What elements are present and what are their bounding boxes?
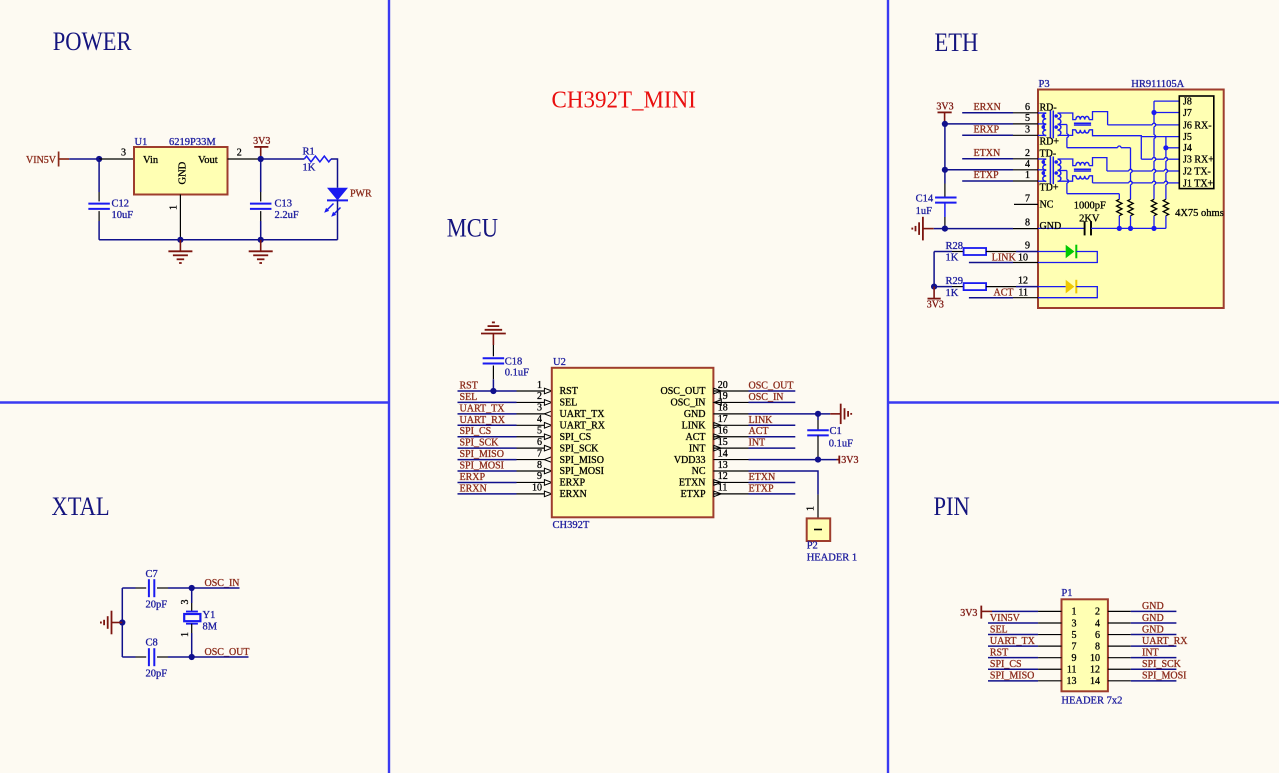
svg-text:1K: 1K <box>946 253 959 264</box>
pin arrow 2 <box>544 400 551 406</box>
svg-text:7: 7 <box>1072 641 1077 652</box>
svg-text:12: 12 <box>718 471 728 482</box>
wire UART_RX to U2 pin 4 <box>458 424 517 426</box>
node junctions GND row <box>1117 226 1122 231</box>
svg-text:18: 18 <box>718 403 728 414</box>
svg-text:OSC_IN: OSC_IN <box>670 398 705 409</box>
wire XTAL left rail <box>121 588 123 657</box>
svg-text:8: 8 <box>1095 641 1100 652</box>
transformer secondary winding <box>1058 113 1061 135</box>
transformer primary winding <box>1043 113 1046 135</box>
svg-text:VIN5V: VIN5V <box>26 155 57 166</box>
svg-text:10: 10 <box>1018 252 1028 263</box>
wire ERXP to P3 pin 3 <box>962 134 1013 136</box>
svg-text:UART_RX: UART_RX <box>560 420 606 431</box>
svg-text:ETXN: ETXN <box>679 478 706 489</box>
ground symbol below C13 <box>260 240 262 251</box>
svg-text:ERXP: ERXP <box>974 125 1000 136</box>
node junction GND bus <box>177 237 183 243</box>
svg-text:J7: J7 <box>1183 108 1192 119</box>
node junction C18/RST <box>490 388 496 394</box>
wire OSC_IN pin19 <box>713 401 748 403</box>
wire OSC_IN <box>192 587 240 589</box>
svg-text:SPI_SCK: SPI_SCK <box>460 438 500 449</box>
wire SPI_SCK to U2 pin 6 <box>458 447 517 449</box>
svg-text:ETXN: ETXN <box>749 472 776 483</box>
wire VDD33 pin14 <box>713 459 748 461</box>
wire VIN5V to P1 pin 3 <box>988 622 1038 624</box>
wire SPI_CS to U2 pin 5 <box>458 436 517 438</box>
wire UART_TX to U2 pin 3 <box>458 413 517 415</box>
svg-text:ETXP: ETXP <box>974 170 999 181</box>
svg-text:3V3: 3V3 <box>936 101 953 112</box>
wire INT pin15 <box>713 447 748 449</box>
node junction R29 rail <box>931 284 937 290</box>
wire J5 row <box>1142 136 1179 138</box>
svg-text:4: 4 <box>1095 618 1100 629</box>
svg-text:6219P33M: 6219P33M <box>169 137 216 148</box>
svg-text:C1: C1 <box>830 426 842 437</box>
svg-text:J4: J4 <box>1183 143 1192 154</box>
IC U2 body <box>552 368 714 518</box>
connector P3 body <box>1038 90 1224 309</box>
wire rail to P3 pin5 <box>945 123 1013 125</box>
wire LED cathode to bottom bus <box>337 200 339 239</box>
svg-text:SPI_SCK: SPI_SCK <box>560 443 600 454</box>
svg-text:C13: C13 <box>275 199 293 210</box>
wire RX center tap to resistor <box>1066 125 1068 135</box>
wire pin2 stub <box>228 158 261 160</box>
svg-text:4: 4 <box>1025 159 1030 170</box>
svg-text:3: 3 <box>537 403 542 414</box>
wire SPI_MOSI from P1 pin 14 <box>1108 680 1131 682</box>
crystal Y1 <box>186 611 198 613</box>
wire ERXP to U2 pin 9 <box>458 481 517 483</box>
node junction rail/ground <box>119 619 125 625</box>
wire primary leads <box>1038 112 1046 114</box>
svg-text:8M: 8M <box>203 622 218 633</box>
svg-text:0.1uF: 0.1uF <box>505 368 529 379</box>
svg-text:GND: GND <box>1142 624 1164 635</box>
pin arrow 12 <box>714 480 721 486</box>
node junction rail pin4 <box>942 167 948 173</box>
svg-text:3: 3 <box>1072 618 1077 629</box>
wire C8 to OSC_OUT node <box>157 656 168 658</box>
svg-text:ETXP: ETXP <box>749 483 774 494</box>
svg-text:7: 7 <box>537 448 542 459</box>
LED ACT yellow <box>1038 286 1066 288</box>
wire C7 to OSC_IN node <box>157 587 168 589</box>
wire UART_TX to P1 pin 7 <box>988 645 1038 647</box>
svg-text:Vin: Vin <box>143 155 159 166</box>
wire U1 GND pin to bus <box>179 195 181 240</box>
svg-text:3: 3 <box>1025 124 1030 135</box>
wire J8 row <box>1154 100 1179 102</box>
svg-text:10uF: 10uF <box>112 210 134 221</box>
svg-text:R29: R29 <box>946 276 964 287</box>
wire SPI_SCK from P1 pin 12 <box>1108 668 1131 670</box>
svg-text:INT: INT <box>749 438 766 449</box>
wire RST to P1 pin 9 <box>988 657 1038 659</box>
svg-text:5: 5 <box>1025 113 1030 124</box>
svg-text:9: 9 <box>1025 241 1030 252</box>
svg-text:C12: C12 <box>112 199 130 210</box>
wire secondary bottom to choke <box>1058 130 1076 136</box>
svg-text:14: 14 <box>1090 676 1100 687</box>
wire termination column C2 <box>1165 137 1167 158</box>
choke winding <box>1076 162 1089 165</box>
svg-text:8: 8 <box>537 460 542 471</box>
capacitor C7 <box>148 579 150 597</box>
pin arrow 19 <box>714 400 721 406</box>
pin arrow 9 <box>544 480 551 486</box>
svg-text:ETXN: ETXN <box>974 148 1001 159</box>
svg-text:ERXN: ERXN <box>460 483 487 494</box>
svg-text:UART_RX: UART_RX <box>1142 636 1188 647</box>
svg-text:ERXP: ERXP <box>560 478 586 489</box>
svg-text:SPI_MISO: SPI_MISO <box>560 455 604 466</box>
pin arrow 8 <box>544 468 551 474</box>
svg-text:20pF: 20pF <box>146 600 168 611</box>
svg-text:4: 4 <box>537 414 542 425</box>
svg-text:C18: C18 <box>505 357 523 368</box>
node junction OSC_IN <box>189 585 195 591</box>
svg-text:17: 17 <box>718 414 728 425</box>
transformer core <box>1049 111 1051 139</box>
svg-text:LINK: LINK <box>992 252 1017 263</box>
svg-text:2: 2 <box>1095 607 1100 618</box>
node junction 3V3/C13 <box>258 156 264 162</box>
svg-text:GND: GND <box>1040 221 1062 232</box>
svg-text:4X75 ohms: 4X75 ohms <box>1175 208 1224 219</box>
power symbol 3V3 top of ETH <box>938 111 952 113</box>
svg-text:OSC_IN: OSC_IN <box>749 392 784 403</box>
wire SEL to P1 pin 5 <box>988 634 1038 636</box>
wire rail to P3 pin4 <box>945 169 1013 171</box>
svg-text:MCU: MCU <box>447 214 499 243</box>
wire NC pin13 to P2 <box>713 470 748 472</box>
capacitor C14 <box>944 170 946 184</box>
wire RST to U2 pin 1 <box>458 390 517 392</box>
svg-text:3V3: 3V3 <box>253 136 270 147</box>
svg-text:1: 1 <box>537 380 542 391</box>
wire UART_RX from P1 pin 8 <box>1108 645 1131 647</box>
svg-text:LINK: LINK <box>682 420 707 431</box>
svg-text:1K: 1K <box>946 288 959 299</box>
node junction J4 column <box>1163 145 1168 150</box>
svg-text:3: 3 <box>121 148 126 159</box>
svg-text:VIN5V: VIN5V <box>990 613 1021 624</box>
node junction GND/C1 <box>815 411 821 417</box>
svg-text:12: 12 <box>1090 665 1100 676</box>
power symbol 3V3 below R29 rail <box>933 287 935 299</box>
wire LINK LED loop <box>1038 252 1097 263</box>
svg-text:1: 1 <box>806 506 817 511</box>
wire ACT pin16 <box>713 436 748 438</box>
power symbol 3V3 above C13 <box>254 146 268 148</box>
svg-text:C7: C7 <box>146 569 158 580</box>
wire ACT pin11 <box>969 297 1013 299</box>
svg-text:GND: GND <box>178 161 189 184</box>
wire pin3 stub <box>99 158 134 160</box>
wire OSC_OUT <box>192 656 249 658</box>
wire GND pin18 <box>713 413 748 415</box>
svg-text:SPI_SCK: SPI_SCK <box>1142 659 1182 670</box>
svg-text:ERXN: ERXN <box>974 102 1001 113</box>
svg-text:11: 11 <box>718 483 728 494</box>
svg-text:J5: J5 <box>1183 132 1192 143</box>
svg-text:3V3: 3V3 <box>927 300 944 311</box>
wire TX choke to J2 <box>1089 158 1107 171</box>
svg-text:ACT: ACT <box>686 432 706 443</box>
pin arrow 17 <box>714 422 721 428</box>
wire TX choke to J1 <box>1089 176 1092 183</box>
svg-text:ETH: ETH <box>935 28 979 57</box>
svg-text:SPI_MISO: SPI_MISO <box>990 671 1034 682</box>
svg-text:3V3: 3V3 <box>960 608 977 619</box>
wire VIN5V to node <box>69 158 99 160</box>
wire GND row to P3 pin8 <box>934 228 945 230</box>
svg-text:R1: R1 <box>303 147 315 158</box>
svg-text:11: 11 <box>1067 665 1077 676</box>
svg-text:ERXP: ERXP <box>460 472 486 483</box>
transformer core <box>1049 157 1051 185</box>
wire primary leads <box>1038 158 1046 160</box>
svg-text:1000pF: 1000pF <box>1074 201 1106 212</box>
wire OSC_OUT pin20 <box>713 390 748 392</box>
wire 3V3 to P1 pin1 <box>981 610 992 612</box>
svg-text:C8: C8 <box>146 638 158 649</box>
wire NC stub pin7 <box>1014 203 1038 205</box>
svg-text:5: 5 <box>537 426 542 437</box>
wire 3V3 node to R1 <box>261 158 305 160</box>
wire SPI_CS to P1 pin 11 <box>988 668 1038 670</box>
capacitor C8 <box>148 648 150 666</box>
svg-text:SPI_CS: SPI_CS <box>990 659 1022 670</box>
svg-text:2: 2 <box>237 148 242 159</box>
svg-text:6: 6 <box>1025 102 1030 113</box>
wire ETH left rail <box>944 124 946 170</box>
ground symbol right of U2 <box>830 413 840 415</box>
svg-text:UART_RX: UART_RX <box>460 415 506 426</box>
svg-text:HEADER 1: HEADER 1 <box>807 553 857 564</box>
wire bottom rail to C8 <box>122 656 135 658</box>
header P2 body <box>807 518 831 541</box>
wire GND from P1 pin 2 <box>1108 610 1131 612</box>
svg-text:J1 TX+: J1 TX+ <box>1183 178 1214 189</box>
svg-text:Vout: Vout <box>198 155 218 166</box>
ground symbol above C18 (inverted) <box>492 334 494 345</box>
svg-text:SEL: SEL <box>990 624 1008 635</box>
svg-text:NC: NC <box>692 466 706 477</box>
wire crystal branch bottom <box>191 624 193 633</box>
wire ETXN to P3 pin 2 <box>962 158 1013 160</box>
node junction VDD33/C1 <box>815 456 821 462</box>
svg-text:R28: R28 <box>946 241 964 252</box>
capacitor C18 <box>492 345 494 356</box>
wire ETXP pin11 <box>713 493 748 495</box>
node junction at C12 top <box>96 156 102 162</box>
svg-text:P2: P2 <box>807 541 818 552</box>
svg-text:10: 10 <box>532 483 542 494</box>
wire TX center tap to resistor <box>1058 170 1067 172</box>
pin arrow 3 <box>544 411 551 417</box>
resistor R29 <box>934 286 952 288</box>
svg-text:GND: GND <box>684 409 706 420</box>
wire ETXP to P3 pin 1 <box>962 180 1013 182</box>
LED PWR (blue) <box>327 188 348 201</box>
ground symbol below U1 <box>179 240 181 251</box>
svg-text:RST: RST <box>990 647 1008 658</box>
svg-text:1uF: 1uF <box>916 206 933 217</box>
svg-text:POWER: POWER <box>53 28 132 57</box>
pin arrow 20 <box>714 388 721 394</box>
svg-text:SEL: SEL <box>560 398 578 409</box>
svg-text:INT: INT <box>1142 647 1159 658</box>
svg-text:8: 8 <box>1025 217 1030 228</box>
wire GND from P1 pin 6 <box>1108 634 1131 636</box>
svg-text:GND: GND <box>1142 613 1164 624</box>
svg-text:RD-: RD- <box>1040 103 1057 114</box>
svg-text:J3 RX+: J3 RX+ <box>1183 155 1214 166</box>
power symbol 3V3 right of U2 <box>838 456 840 464</box>
svg-text:2.2uF: 2.2uF <box>275 210 299 221</box>
svg-text:RST: RST <box>460 381 478 392</box>
svg-text:20pF: 20pF <box>146 669 168 680</box>
node junction 3V3 rail pin5 <box>942 121 948 127</box>
svg-text:HEADER 7x2: HEADER 7x2 <box>1061 696 1122 707</box>
wire SEL to U2 pin 2 <box>458 401 517 403</box>
wire SPI_MOSI to U2 pin 8 <box>458 470 517 472</box>
wire LINK pin10 <box>969 262 1013 264</box>
pin arrow 1 <box>544 388 551 394</box>
node junction C14/GND <box>942 226 948 232</box>
wire secondary bottom to choke <box>1058 176 1076 181</box>
pin arrow 4 <box>544 422 551 428</box>
pin arrow 10 <box>544 491 551 497</box>
svg-text:CH392T_MINI: CH392T_MINI <box>552 87 696 114</box>
svg-text:12: 12 <box>1018 276 1028 287</box>
svg-text:RST: RST <box>560 386 578 397</box>
svg-text:J8: J8 <box>1183 97 1192 108</box>
wire secondary top to choke <box>1058 113 1076 120</box>
wire ETXN pin12 <box>713 481 748 483</box>
svg-text:PIN: PIN <box>934 492 971 521</box>
svg-text:16: 16 <box>718 426 728 437</box>
svg-text:C14: C14 <box>916 194 934 205</box>
svg-text:1: 1 <box>1025 170 1030 181</box>
svg-text:15: 15 <box>718 437 728 448</box>
svg-text:1: 1 <box>180 632 191 637</box>
svg-text:OSC_OUT: OSC_OUT <box>749 381 794 392</box>
svg-text:OSC_OUT: OSC_OUT <box>660 386 705 397</box>
wire resistor bottoms to GND row <box>1118 216 1120 229</box>
capacitor C1 <box>817 414 819 420</box>
svg-text:SPI_CS: SPI_CS <box>560 432 592 443</box>
ground symbol left of rail <box>112 622 123 624</box>
svg-text:13: 13 <box>718 460 728 471</box>
svg-text:SPI_MOSI: SPI_MOSI <box>1142 671 1186 682</box>
transformer primary winding <box>1043 159 1046 181</box>
node junction C13 bus <box>258 237 264 243</box>
wire R1 to LED <box>331 159 338 188</box>
svg-text:PWR: PWR <box>350 189 372 200</box>
svg-text:UART_TX: UART_TX <box>990 636 1036 647</box>
port VIN5V <box>26 152 69 167</box>
svg-text:9: 9 <box>1072 653 1077 664</box>
svg-text:3: 3 <box>180 600 191 605</box>
LED light arrows <box>326 204 334 212</box>
svg-text:2: 2 <box>1025 148 1030 159</box>
svg-text:U2: U2 <box>553 357 566 368</box>
svg-text:6: 6 <box>1095 630 1100 641</box>
wire J7 row <box>1154 112 1179 114</box>
svg-text:XTAL: XTAL <box>52 492 110 521</box>
svg-text:J6 RX-: J6 RX- <box>1183 120 1212 131</box>
resistor 75 ohm B <box>1128 199 1133 215</box>
pin arrow 5 <box>544 434 551 440</box>
svg-text:SEL: SEL <box>460 392 478 403</box>
resistor 75 ohm A <box>1117 199 1122 215</box>
choke winding <box>1076 116 1089 119</box>
svg-text:GND: GND <box>1142 601 1164 612</box>
wire R28/R29 rail <box>933 252 935 287</box>
wire columns A and B to resistors <box>1118 194 1120 200</box>
sheet border dividers <box>388 0 390 773</box>
resistor 75 ohm C <box>1151 199 1156 215</box>
wire RX- choke to J6 <box>1089 112 1108 125</box>
ground symbol ETH left <box>923 228 934 230</box>
svg-text:5: 5 <box>1072 630 1077 641</box>
svg-text:SPI_MOSI: SPI_MOSI <box>460 461 504 472</box>
wire GND from P1 pin 4 <box>1108 622 1131 624</box>
svg-text:SPI_MOSI: SPI_MOSI <box>560 466 604 477</box>
wire LINK pin17 <box>713 424 748 426</box>
svg-text:7: 7 <box>1025 193 1030 204</box>
wire ERXN to U2 pin 10 <box>458 493 517 495</box>
wire secondary top to choke <box>1058 159 1076 166</box>
svg-text:RD+: RD+ <box>1040 137 1060 148</box>
wire crystal branch top <box>191 588 193 603</box>
wire top rail to C7 <box>122 587 135 589</box>
svg-text:UART_TX: UART_TX <box>460 403 506 414</box>
svg-text:TD+: TD+ <box>1040 183 1059 194</box>
svg-text:1K: 1K <box>303 163 316 174</box>
svg-text:INT: INT <box>689 443 706 454</box>
svg-text:TD-: TD- <box>1040 149 1057 160</box>
J pin block <box>1179 96 1214 189</box>
svg-text:HR911105A: HR911105A <box>1131 79 1184 90</box>
capacitor C12 <box>98 159 100 192</box>
svg-text:U1: U1 <box>135 137 148 148</box>
svg-text:VDD33: VDD33 <box>674 455 706 466</box>
svg-text:20: 20 <box>718 380 728 391</box>
svg-text:Y1: Y1 <box>203 610 216 621</box>
svg-text:P1: P1 <box>1061 588 1072 599</box>
svg-text:SPI_CS: SPI_CS <box>460 426 492 437</box>
svg-text:UART_TX: UART_TX <box>560 409 606 420</box>
svg-text:P3: P3 <box>1039 79 1050 90</box>
svg-text:2: 2 <box>537 391 542 402</box>
svg-text:10: 10 <box>1090 653 1100 664</box>
capacitor 1000pF 2KV <box>1038 227 1085 229</box>
pin arrow 15 <box>714 445 721 451</box>
resistor R1 <box>304 156 331 162</box>
svg-text:9: 9 <box>537 471 542 482</box>
node junction OSC_OUT <box>189 654 195 660</box>
svg-text:NC: NC <box>1040 200 1054 211</box>
capacitor C13 <box>260 159 262 192</box>
